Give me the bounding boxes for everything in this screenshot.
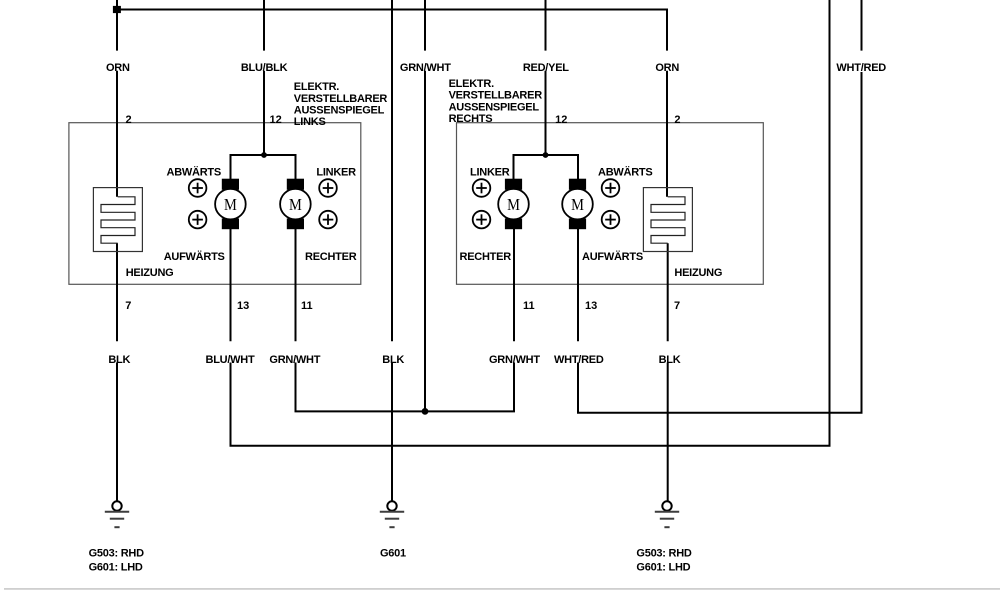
svg-text:GRN/WHT: GRN/WHT xyxy=(269,354,320,366)
svg-text:ABWÄRTS: ABWÄRTS xyxy=(167,166,221,179)
svg-text:VERSTELLBARER: VERSTELLBARER xyxy=(294,93,388,105)
svg-text:11: 11 xyxy=(301,300,313,312)
svg-text:2: 2 xyxy=(126,114,132,126)
svg-text:LINKER: LINKER xyxy=(316,167,356,179)
svg-text:BLU/BLK: BLU/BLK xyxy=(241,62,288,74)
svg-text:ORN: ORN xyxy=(106,62,130,74)
svg-text:WHT/RED: WHT/RED xyxy=(554,354,604,366)
svg-text:BLK: BLK xyxy=(108,354,130,366)
svg-text:13: 13 xyxy=(585,300,597,312)
svg-text:AUFWÄRTS: AUFWÄRTS xyxy=(164,250,225,263)
svg-text:AUSSENSPIEGEL: AUSSENSPIEGEL xyxy=(294,105,385,117)
svg-text:WHT/RED: WHT/RED xyxy=(836,62,886,74)
svg-text:ELEKTR.: ELEKTR. xyxy=(449,78,495,90)
svg-text:RED/YEL: RED/YEL xyxy=(523,62,569,74)
svg-text:7: 7 xyxy=(674,300,680,312)
svg-text:VERSTELLBARER: VERSTELLBARER xyxy=(449,90,543,102)
svg-text:HEIZUNG: HEIZUNG xyxy=(674,267,722,279)
svg-text:GRN/WHT: GRN/WHT xyxy=(489,354,540,366)
svg-text:11: 11 xyxy=(523,300,535,312)
svg-text:12: 12 xyxy=(270,114,282,126)
svg-text:BLK: BLK xyxy=(382,354,404,366)
svg-text:13: 13 xyxy=(237,300,249,312)
svg-text:LINKS: LINKS xyxy=(294,116,326,128)
svg-text:ORN: ORN xyxy=(655,62,679,74)
svg-text:2: 2 xyxy=(674,114,680,126)
svg-text:12: 12 xyxy=(555,114,567,126)
svg-text:RECHTER: RECHTER xyxy=(460,251,512,263)
svg-text:G601: G601 xyxy=(380,548,406,560)
svg-text:GRN/WHT: GRN/WHT xyxy=(400,62,451,74)
svg-text:G503: RHD: G503: RHD xyxy=(636,548,692,560)
svg-text:HEIZUNG: HEIZUNG xyxy=(126,267,174,279)
svg-text:ELEKTR.: ELEKTR. xyxy=(294,81,340,93)
svg-text:7: 7 xyxy=(125,300,131,312)
svg-text:G503: RHD: G503: RHD xyxy=(89,548,145,560)
svg-text:ABWÄRTS: ABWÄRTS xyxy=(598,166,652,179)
svg-text:AUSSENSPIEGEL: AUSSENSPIEGEL xyxy=(449,101,540,113)
svg-text:RECHTER: RECHTER xyxy=(305,251,357,263)
svg-text:G601: LHD: G601: LHD xyxy=(89,561,143,573)
svg-text:G601: LHD: G601: LHD xyxy=(636,561,690,573)
svg-text:BLU/WHT: BLU/WHT xyxy=(206,354,255,366)
svg-text:AUFWÄRTS: AUFWÄRTS xyxy=(582,250,643,263)
svg-text:RECHTS: RECHTS xyxy=(449,113,493,125)
svg-text:LINKER: LINKER xyxy=(470,167,510,179)
svg-text:BLK: BLK xyxy=(659,354,681,366)
